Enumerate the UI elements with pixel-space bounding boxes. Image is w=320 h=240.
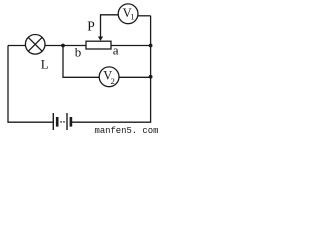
svg-text:1: 1 xyxy=(130,11,134,21)
svg-text:a: a xyxy=(113,43,119,58)
svg-text:P: P xyxy=(87,19,95,34)
svg-text:2: 2 xyxy=(111,76,115,86)
svg-text:L: L xyxy=(41,57,49,72)
svg-text:manfen5. com: manfen5. com xyxy=(95,126,159,134)
svg-text:b: b xyxy=(75,44,82,59)
